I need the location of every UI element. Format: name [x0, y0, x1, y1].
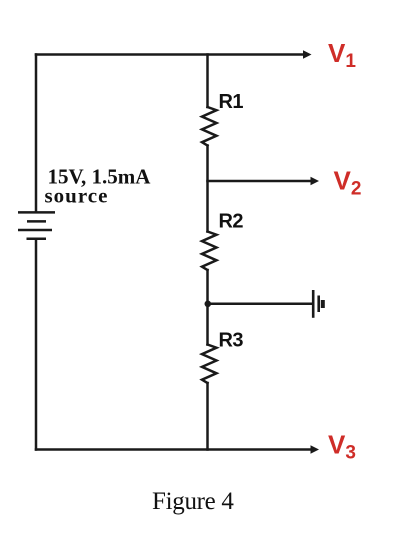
resistor R1 [202, 107, 217, 146]
wire top horizontal [36, 53, 304, 56]
resistor R2 [202, 232, 217, 271]
wire bottom horizontal [36, 448, 311, 451]
arrowhead V3 [311, 445, 320, 453]
wire right vertical below R3 [206, 383, 209, 450]
wire right vertical between R2 and R3 [206, 270, 209, 345]
svg-text:R3: R3 [219, 330, 244, 352]
battery B1 [18, 212, 55, 238]
arrowhead V2 [311, 177, 320, 185]
arrowhead V1 [303, 50, 312, 58]
svg-text:V2: V2 [334, 166, 362, 200]
wire ground tap [207, 303, 313, 306]
resistor R3 [202, 345, 217, 384]
wire left vertical lower [35, 239, 38, 450]
node junction dot [205, 301, 212, 308]
wire V2 tap [208, 180, 312, 183]
svg-text:R1: R1 [219, 91, 244, 113]
wire left vertical upper [35, 55, 38, 213]
wire right vertical between R1 and R2 [206, 146, 209, 232]
svg-text:V1: V1 [328, 38, 356, 72]
svg-text:R2: R2 [219, 211, 244, 233]
wire right vertical segment top [206, 55, 209, 108]
svg-text:V3: V3 [328, 430, 356, 464]
svg-text:source: source [45, 184, 109, 208]
ground [313, 290, 323, 318]
svg-text:Figure 4: Figure 4 [152, 488, 234, 515]
